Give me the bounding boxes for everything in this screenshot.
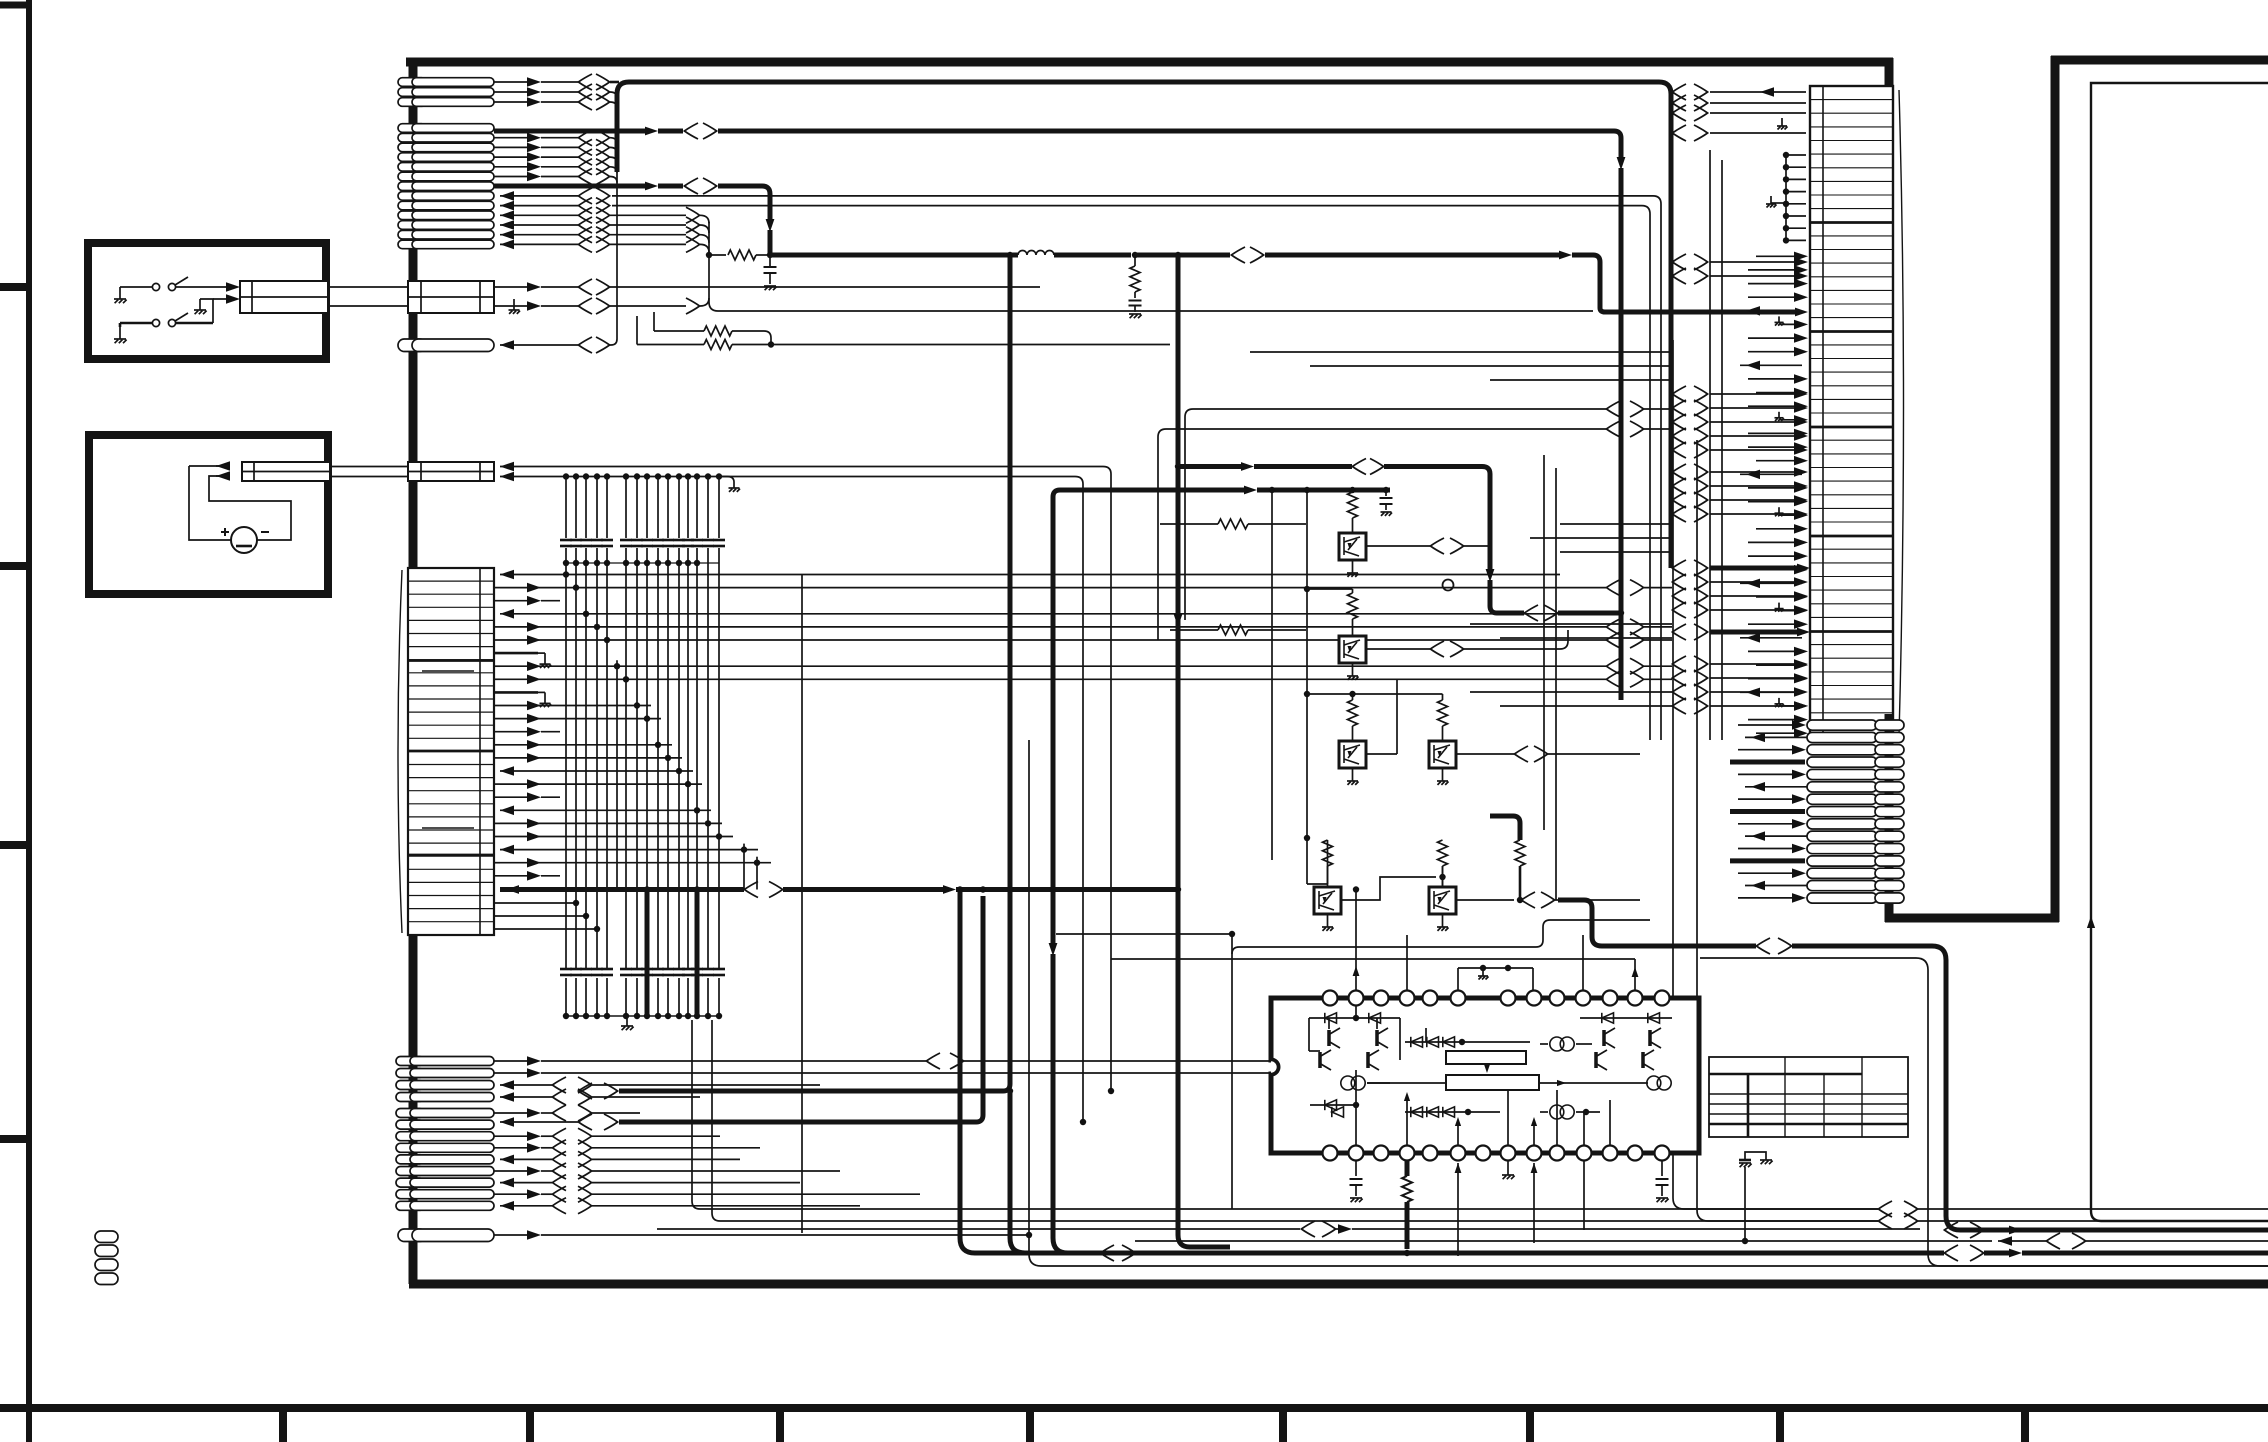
resistor R-mid1 bbox=[1160, 519, 1306, 529]
battery wiring bbox=[189, 461, 291, 540]
IC internal middle diodes bottom bbox=[1332, 1107, 1500, 1117]
optocoupler PC6 bbox=[1429, 840, 1456, 931]
wire CN-A to board bbox=[328, 287, 408, 306]
wires into CN202 bbox=[1730, 720, 1807, 903]
wires group D bbox=[494, 1105, 920, 1214]
rail x1786 bbox=[1766, 152, 1806, 244]
IC internal middle blocks bbox=[1367, 1037, 1630, 1119]
wires group A bbox=[494, 74, 619, 110]
wire CN-B to board bbox=[330, 467, 408, 477]
small circle node bbox=[1443, 580, 1454, 591]
IC external bottom parts bbox=[1350, 1160, 1669, 1256]
optocoupler PC2 bbox=[1307, 589, 1366, 680]
resistor R-opto6 bbox=[1490, 816, 1525, 900]
right sheet outer border left bbox=[2051, 56, 2060, 922]
IC top pin wires bbox=[1056, 886, 1650, 1209]
IC internal right cluster bbox=[1580, 1013, 1672, 1090]
page frame tick y566 bbox=[0, 562, 32, 570]
wires group C bbox=[494, 1053, 1271, 1105]
resistor R-line vertical bbox=[1129, 255, 1142, 318]
connector pin P1 bbox=[398, 339, 494, 352]
optocoupler PC3 bbox=[1339, 700, 1366, 785]
bundle x709 bbox=[709, 222, 1593, 311]
main connector block CN101 bbox=[398, 568, 494, 935]
connector pin P2 bbox=[398, 1229, 494, 1242]
optocoupler PC1 bbox=[1339, 492, 1366, 577]
right sheet outer border top bbox=[2051, 56, 2268, 65]
wire bold top bus y82 bbox=[617, 82, 1671, 568]
connector group C pins bbox=[396, 1057, 494, 1102]
ground switch B bbox=[114, 327, 127, 343]
page frame tick y1139 bbox=[0, 1135, 32, 1143]
IC IC501 top pins bbox=[1323, 991, 1670, 1006]
battery unit box bbox=[89, 435, 328, 594]
bus thin y1209 bbox=[700, 1201, 2268, 1217]
wire verticals middle web bbox=[801, 575, 803, 1233]
wire bold net B2 bbox=[494, 178, 774, 255]
opto output wires bbox=[1340, 538, 1640, 908]
main board outline bottom bbox=[409, 1280, 2268, 1289]
IC IC501 bottom pins bbox=[1323, 1146, 1670, 1161]
capacitor bank upper rail bbox=[563, 477, 740, 567]
wires into CN201 bbox=[1740, 252, 1808, 738]
wires CN101 rows bbox=[494, 570, 1672, 881]
bank top links bbox=[494, 900, 600, 932]
IC internal left cluster bbox=[1309, 1006, 1400, 1146]
wire P2 net bbox=[494, 1230, 1032, 1240]
wire bold H890 bbox=[500, 252, 1230, 1253]
wire top right rows bbox=[1672, 84, 1806, 141]
connector CN-A socket on board bbox=[408, 281, 494, 313]
page frame bottom border bbox=[0, 1404, 2268, 1412]
switch S2 wire bbox=[200, 294, 240, 323]
bus bold y1253 bbox=[1100, 1245, 2268, 1261]
switch S1 bbox=[120, 277, 240, 292]
vertical rails right-mid bbox=[1673, 150, 1878, 1221]
connector block CN201 bottom stub bbox=[1885, 714, 1894, 740]
wire bold H1091 bbox=[578, 252, 1100, 1253]
connector block CN201 bbox=[1810, 86, 1904, 740]
bus thin y1221 bbox=[720, 1213, 2268, 1229]
wire corner bus B bbox=[1700, 958, 2268, 1266]
connector CN-A plug bbox=[240, 281, 328, 313]
wire P1 net bbox=[500, 337, 610, 353]
bus left stubs bbox=[692, 1020, 720, 1221]
spare connector ovals bbox=[95, 1231, 118, 1285]
page frame left border bbox=[26, 0, 32, 1442]
connector CN-B plug bbox=[242, 462, 330, 481]
bus y1229 bbox=[657, 1221, 1920, 1237]
capacitor bank columns bbox=[560, 473, 725, 1019]
wire battery nets to middle bbox=[500, 459, 1624, 1126]
wire bold net B1 bbox=[494, 123, 1625, 700]
battery B1 bbox=[221, 527, 269, 553]
optocoupler PC4 bbox=[1429, 700, 1456, 785]
connector CN202 pins bbox=[1807, 720, 1904, 903]
ground pair symbol bbox=[1739, 1152, 1773, 1244]
wire farm rows mid bbox=[1672, 254, 1810, 714]
wire bold x960 drop bbox=[957, 886, 1100, 1253]
connector group B pins bbox=[398, 124, 494, 249]
wire farm long horizontals bbox=[1250, 352, 1672, 706]
main board outline bottom-right step bbox=[1885, 914, 2059, 923]
wire bus group B out bbox=[494, 130, 1661, 430]
wire bold corner bus A bbox=[1558, 900, 2268, 1230]
opto feed rail bbox=[1304, 487, 1443, 884]
verticals x1544 x1556 bbox=[1544, 420, 1661, 900]
page frame tick y845 bbox=[0, 841, 32, 849]
IC top ground loop bbox=[1458, 965, 1533, 990]
ground switch mid bbox=[194, 302, 207, 314]
bus y1241 bbox=[1135, 1233, 2268, 1249]
ground switch A bbox=[114, 287, 127, 303]
bus left segment arrows bbox=[0, 0, 1, 1]
main board outline left bbox=[409, 58, 418, 1284]
capacitor C-PC1 bbox=[1380, 490, 1393, 516]
IC internal wiring bbox=[1400, 1018, 1610, 1146]
switch unit box bbox=[88, 243, 326, 359]
bus thin y1266 bbox=[1029, 740, 2268, 1266]
connector group A pins bbox=[398, 78, 494, 107]
IC IC501 notch bbox=[1271, 1060, 1278, 1074]
main board outline top bbox=[406, 58, 1893, 67]
resistor R-mid2 bbox=[1170, 625, 1306, 635]
right sheet inner border bbox=[2087, 83, 2268, 1221]
extra risers bbox=[617, 660, 757, 889]
wire vertical x617 bbox=[608, 94, 617, 345]
page frame bottom ticks bbox=[283, 1404, 2025, 1442]
page frame tick y287 bbox=[0, 283, 32, 291]
main board outline right lower bbox=[1885, 698, 1894, 922]
bus bold y1230 bbox=[1944, 1222, 2268, 1238]
wire bold H490 bbox=[1053, 486, 1390, 860]
connector CN-B socket on board bbox=[408, 462, 494, 481]
wire bold H1122 bbox=[500, 886, 986, 1130]
capacitor bank lower rail bbox=[566, 1016, 719, 1030]
switch S2 bbox=[120, 313, 213, 327]
signal table bbox=[1709, 1057, 1908, 1137]
wire net R-C filter bbox=[706, 247, 1808, 316]
connector group D pins bbox=[396, 1109, 494, 1211]
main board outline right upper stub bbox=[1885, 58, 1894, 92]
optocoupler PC5 bbox=[1314, 840, 1341, 931]
IC internal middle diodes top bbox=[1405, 1037, 1530, 1047]
wire pair from CN-A socket bbox=[494, 279, 1170, 350]
page frame top-left tick bbox=[0, 2, 32, 9]
wire trio mid bbox=[1158, 401, 1672, 640]
IC IC501 body bbox=[1271, 998, 1699, 1153]
